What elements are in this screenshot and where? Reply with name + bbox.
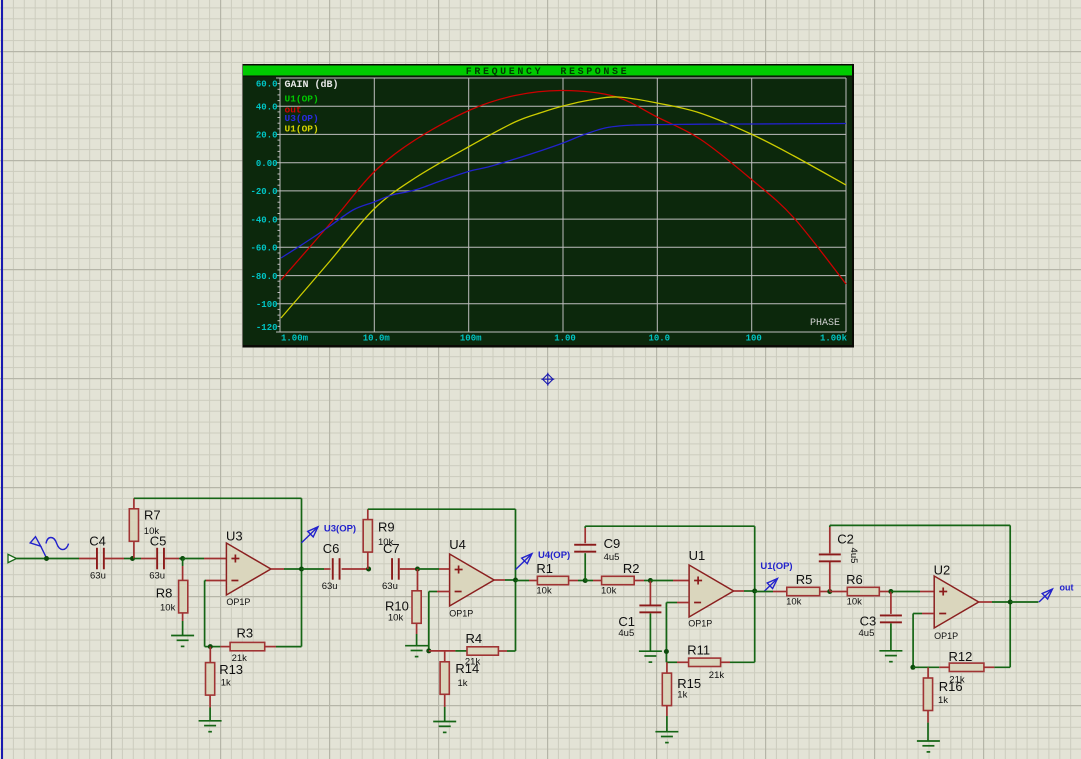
svg-text:10k: 10k <box>847 597 863 608</box>
probe U1(OP) <box>764 579 778 592</box>
svg-text:R9: R9 <box>378 519 395 534</box>
svg-text:-20.0: -20.0 <box>250 187 277 197</box>
svg-text:0.00: 0.00 <box>256 159 278 169</box>
pin U2 minus wire <box>922 613 934 615</box>
svg-text:U1: U1 <box>689 548 706 563</box>
wire U1 minus down <box>665 603 667 663</box>
node stage2 feedback <box>426 648 431 653</box>
svg-text:U1(OP): U1(OP) <box>285 124 319 135</box>
node R6-C3 <box>888 589 893 594</box>
pin R2 left <box>593 580 602 582</box>
pin U4 output <box>494 579 505 581</box>
wire to U1 plus <box>650 580 673 582</box>
svg-text:4u5: 4u5 <box>859 628 875 639</box>
svg-text:10k: 10k <box>388 612 404 623</box>
wire feedback top stage4 <box>830 524 1010 526</box>
resistor R14 <box>440 662 449 695</box>
wire C1 bottom <box>649 613 651 651</box>
pin R8 bottom <box>182 613 184 621</box>
pin U2 output <box>979 601 992 603</box>
node C7-R10 <box>415 567 420 572</box>
op-amp U3 <box>226 543 271 595</box>
wire U3 minus down <box>204 581 206 647</box>
resistor R1 <box>537 576 568 584</box>
op-amp U2 <box>934 576 979 628</box>
ground R10 <box>405 645 428 647</box>
svg-text:-120: -120 <box>256 323 278 333</box>
svg-text:63u: 63u <box>90 570 106 581</box>
wire pin C4 left <box>79 558 96 560</box>
svg-text:10.0: 10.0 <box>648 334 670 344</box>
svg-text:1.00k: 1.00k <box>820 334 848 344</box>
svg-text:100m: 100m <box>460 334 482 344</box>
pin C2 bottom <box>829 562 831 591</box>
svg-text:U3(OP): U3(OP) <box>285 113 319 124</box>
svg-text:21k: 21k <box>232 653 248 664</box>
resistor R15 <box>662 673 671 706</box>
probe U4(OP) <box>516 554 533 570</box>
svg-text:4u5: 4u5 <box>848 548 859 564</box>
svg-text:4u5: 4u5 <box>618 628 634 639</box>
wire U1 out to R5 <box>754 590 756 593</box>
capacitor C4 <box>96 548 98 570</box>
page border (blue) <box>1 0 3 759</box>
pin R11 right <box>721 661 730 663</box>
svg-text:1k: 1k <box>677 690 687 701</box>
input terminal <box>8 554 17 562</box>
svg-text:63u: 63u <box>382 581 398 592</box>
svg-text:10k: 10k <box>786 597 802 608</box>
wire C3 bottom <box>890 623 892 650</box>
resistor R4 <box>467 647 498 655</box>
svg-text:R7: R7 <box>144 508 161 523</box>
wire C9 bottom <box>584 553 586 580</box>
resistor R10 <box>412 591 421 624</box>
resistor R6 <box>847 587 879 595</box>
resistor R2 <box>602 576 635 584</box>
svg-text:U3: U3 <box>226 529 243 544</box>
node U1 output <box>752 589 757 594</box>
svg-text:-80.0: -80.0 <box>250 272 277 282</box>
svg-text:R11: R11 <box>687 643 710 658</box>
pin R15 top <box>666 662 668 673</box>
svg-text:-100: -100 <box>256 300 278 310</box>
svg-text:R12: R12 <box>949 649 973 664</box>
pin R7 bottom <box>133 541 135 558</box>
probe U3(OP) <box>302 527 319 543</box>
sheet origin marker <box>541 373 554 386</box>
svg-text:R4: R4 <box>466 631 483 646</box>
resistor R12 <box>949 663 984 671</box>
svg-text:FREQUENCY RESPONSE: FREQUENCY RESPONSE <box>466 67 629 78</box>
node R5-C2 <box>827 589 832 594</box>
capacitor C1 <box>639 605 661 607</box>
resistor R8 <box>179 580 188 613</box>
pin U1 output <box>734 590 744 592</box>
resistor R3 <box>230 642 265 650</box>
svg-text:1k: 1k <box>458 678 468 689</box>
pin C9 top <box>584 528 586 543</box>
red trace (out) <box>281 90 846 284</box>
pin R9 top <box>367 509 369 519</box>
wire C4node to C5 <box>134 558 141 560</box>
svg-text:C7: C7 <box>383 541 400 556</box>
svg-text:OP1P: OP1P <box>688 619 712 629</box>
pin U1 minus wire <box>677 602 689 604</box>
pin R14 top <box>444 651 446 662</box>
capacitor C7 <box>391 558 393 580</box>
resistor R13 <box>206 663 215 696</box>
wire to out probe <box>1010 601 1038 603</box>
pin R5 right <box>820 591 830 593</box>
capacitor C6 <box>332 558 334 580</box>
wire feedback right stage2 <box>515 580 517 651</box>
pin R15 bottom <box>666 706 668 716</box>
svg-text:100: 100 <box>746 334 762 344</box>
svg-text:21k: 21k <box>465 656 481 667</box>
svg-text:C3: C3 <box>860 613 877 628</box>
capacitor C5 <box>156 548 158 570</box>
ground R8 <box>171 635 194 637</box>
svg-text:U1(OP): U1(OP) <box>285 94 319 105</box>
op-amp U1 <box>689 565 734 617</box>
pin U3 minus wire <box>206 580 226 582</box>
pin R3 left <box>220 646 230 648</box>
y-axis tick marks <box>276 78 280 332</box>
svg-text:C1: C1 <box>618 614 635 629</box>
graph plot background <box>243 77 852 346</box>
node R1-C9 <box>583 578 588 583</box>
svg-text:OP1P: OP1P <box>226 597 250 607</box>
pin R7 top <box>133 498 135 509</box>
node stage4 feedback <box>910 665 915 670</box>
svg-text:C5: C5 <box>150 534 167 549</box>
svg-text:10k: 10k <box>160 603 176 614</box>
svg-text:1k: 1k <box>938 695 948 706</box>
wire U4 out to R1 <box>515 579 517 582</box>
capacitor C3 <box>880 615 902 617</box>
svg-text:C9: C9 <box>604 536 621 551</box>
svg-text:OP1P: OP1P <box>934 631 958 641</box>
pin R1 right <box>569 580 578 582</box>
svg-text:40.0: 40.0 <box>256 102 278 112</box>
svg-text:63u: 63u <box>322 581 338 592</box>
svg-text:R2: R2 <box>623 561 640 576</box>
svg-text:21k: 21k <box>709 670 725 681</box>
svg-text:R5: R5 <box>796 572 813 587</box>
wire U3 out to C6 <box>302 568 325 570</box>
wire to R14/R4 <box>429 650 456 652</box>
svg-text:R13: R13 <box>219 662 243 677</box>
svg-text:4u5: 4u5 <box>604 552 620 563</box>
wire to R11/R15 <box>666 661 677 663</box>
wire feedback right stage4 <box>1009 602 1011 667</box>
svg-text:1.00m: 1.00m <box>281 334 309 344</box>
ground R16 <box>917 740 940 742</box>
svg-text:GAIN (dB): GAIN (dB) <box>285 79 339 91</box>
pin R14 bottom <box>444 694 446 707</box>
pin R16 bottom <box>927 711 929 723</box>
capacitor C2 <box>819 554 841 556</box>
graph plot gridlines <box>280 78 846 332</box>
resistor R7 <box>129 509 138 542</box>
node U3 output <box>299 567 304 572</box>
pin R4 right <box>498 650 507 652</box>
svg-text:1k: 1k <box>221 678 231 689</box>
wire U4 minus down <box>428 592 430 651</box>
blue trace (U3(OP)) <box>281 124 846 259</box>
wire to U4 plus <box>418 568 440 570</box>
yellow trace (U1(OP)) <box>281 97 846 318</box>
svg-text:63u: 63u <box>149 570 165 581</box>
svg-text:-60.0: -60.0 <box>250 244 277 254</box>
svg-text:-40.0: -40.0 <box>250 215 277 225</box>
svg-text:C6: C6 <box>323 541 340 556</box>
ground R15 <box>655 731 678 733</box>
wire feedback top stage3 <box>585 525 755 527</box>
svg-text:R1: R1 <box>536 561 553 576</box>
pin R10 top <box>417 569 419 591</box>
svg-text:R10: R10 <box>385 598 409 613</box>
pin R16 top <box>927 667 929 678</box>
resistor R9 <box>363 520 372 553</box>
wire to U2 plus <box>891 591 920 593</box>
op-amp U4 <box>450 554 495 606</box>
pin C7 right <box>400 568 418 570</box>
node U4 output <box>513 578 518 583</box>
pin R3 right <box>265 646 276 648</box>
wire pin C5 right <box>165 558 179 560</box>
pin C2 top <box>829 527 831 553</box>
svg-text:OP1P: OP1P <box>449 608 473 618</box>
node input junction <box>44 556 49 561</box>
svg-text:60.0: 60.0 <box>256 80 278 90</box>
node R2-C1 <box>648 578 653 583</box>
svg-text:U1(OP): U1(OP) <box>760 561 792 572</box>
node C6-R9 <box>366 567 371 572</box>
wire feedback top stage2 <box>368 508 516 510</box>
svg-text:U2: U2 <box>934 562 951 577</box>
pin C6 right <box>342 568 369 570</box>
svg-text:10.0m: 10.0m <box>363 334 391 344</box>
pin R6 left <box>830 591 848 593</box>
pin R12 right <box>984 666 995 668</box>
pin R9 bottom <box>367 552 369 569</box>
pin R10 bottom <box>416 623 418 634</box>
node U2 output <box>1008 600 1013 605</box>
svg-text:21k: 21k <box>949 675 965 686</box>
svg-text:20.0: 20.0 <box>256 131 278 141</box>
probe out <box>1039 589 1053 602</box>
svg-text:C4: C4 <box>89 534 106 549</box>
pin R13 bottom <box>209 695 211 707</box>
resistor R16 <box>923 678 932 711</box>
graph window frame <box>243 64 855 348</box>
svg-text:R8: R8 <box>156 586 173 601</box>
graph title bar <box>243 66 852 76</box>
pin U3 output <box>271 568 284 570</box>
ground R14 <box>433 721 456 723</box>
ground C1 <box>639 650 662 652</box>
resistor R5 <box>787 587 820 595</box>
svg-text:U3(OP): U3(OP) <box>324 523 356 534</box>
wire to R16/R12 <box>913 666 939 668</box>
svg-text:10k: 10k <box>536 586 552 597</box>
wire U2 minus down <box>912 614 914 668</box>
ground R13 <box>199 720 222 722</box>
node R3-R13 <box>208 644 213 649</box>
node stage3 minus <box>664 649 669 654</box>
wire feedback right stage1 <box>301 569 303 647</box>
pin R13 top <box>209 647 211 663</box>
pin U4 minus wire <box>437 591 450 593</box>
generator symbol <box>30 537 68 558</box>
pin R6 right <box>879 591 891 593</box>
wire feedback top stage1 <box>134 497 302 499</box>
node C4-R7 <box>130 556 135 561</box>
pin R8 top <box>182 559 184 567</box>
svg-text:R3: R3 <box>237 625 254 640</box>
node C5-R8 <box>180 556 185 561</box>
capacitor C9 <box>574 544 596 546</box>
wire pin C4 right <box>105 558 125 560</box>
ground C3 <box>879 650 902 652</box>
pin C1 top <box>649 581 651 605</box>
svg-text:U4(OP): U4(OP) <box>538 550 570 561</box>
pin C3 top <box>890 592 892 614</box>
wire input to C4 <box>17 558 80 560</box>
resistor R11 <box>689 658 721 666</box>
svg-text:C2: C2 <box>837 532 854 547</box>
svg-text:R6: R6 <box>846 572 863 587</box>
svg-text:U4: U4 <box>449 537 466 552</box>
svg-text:out: out <box>1060 582 1074 592</box>
wire to U3 plus <box>183 558 204 560</box>
svg-text:PHASE: PHASE <box>810 318 840 329</box>
pin R2 right <box>634 580 644 582</box>
wire feedback right stage3 <box>754 591 756 662</box>
svg-text:10k: 10k <box>601 586 617 597</box>
svg-text:1.00: 1.00 <box>554 334 576 344</box>
